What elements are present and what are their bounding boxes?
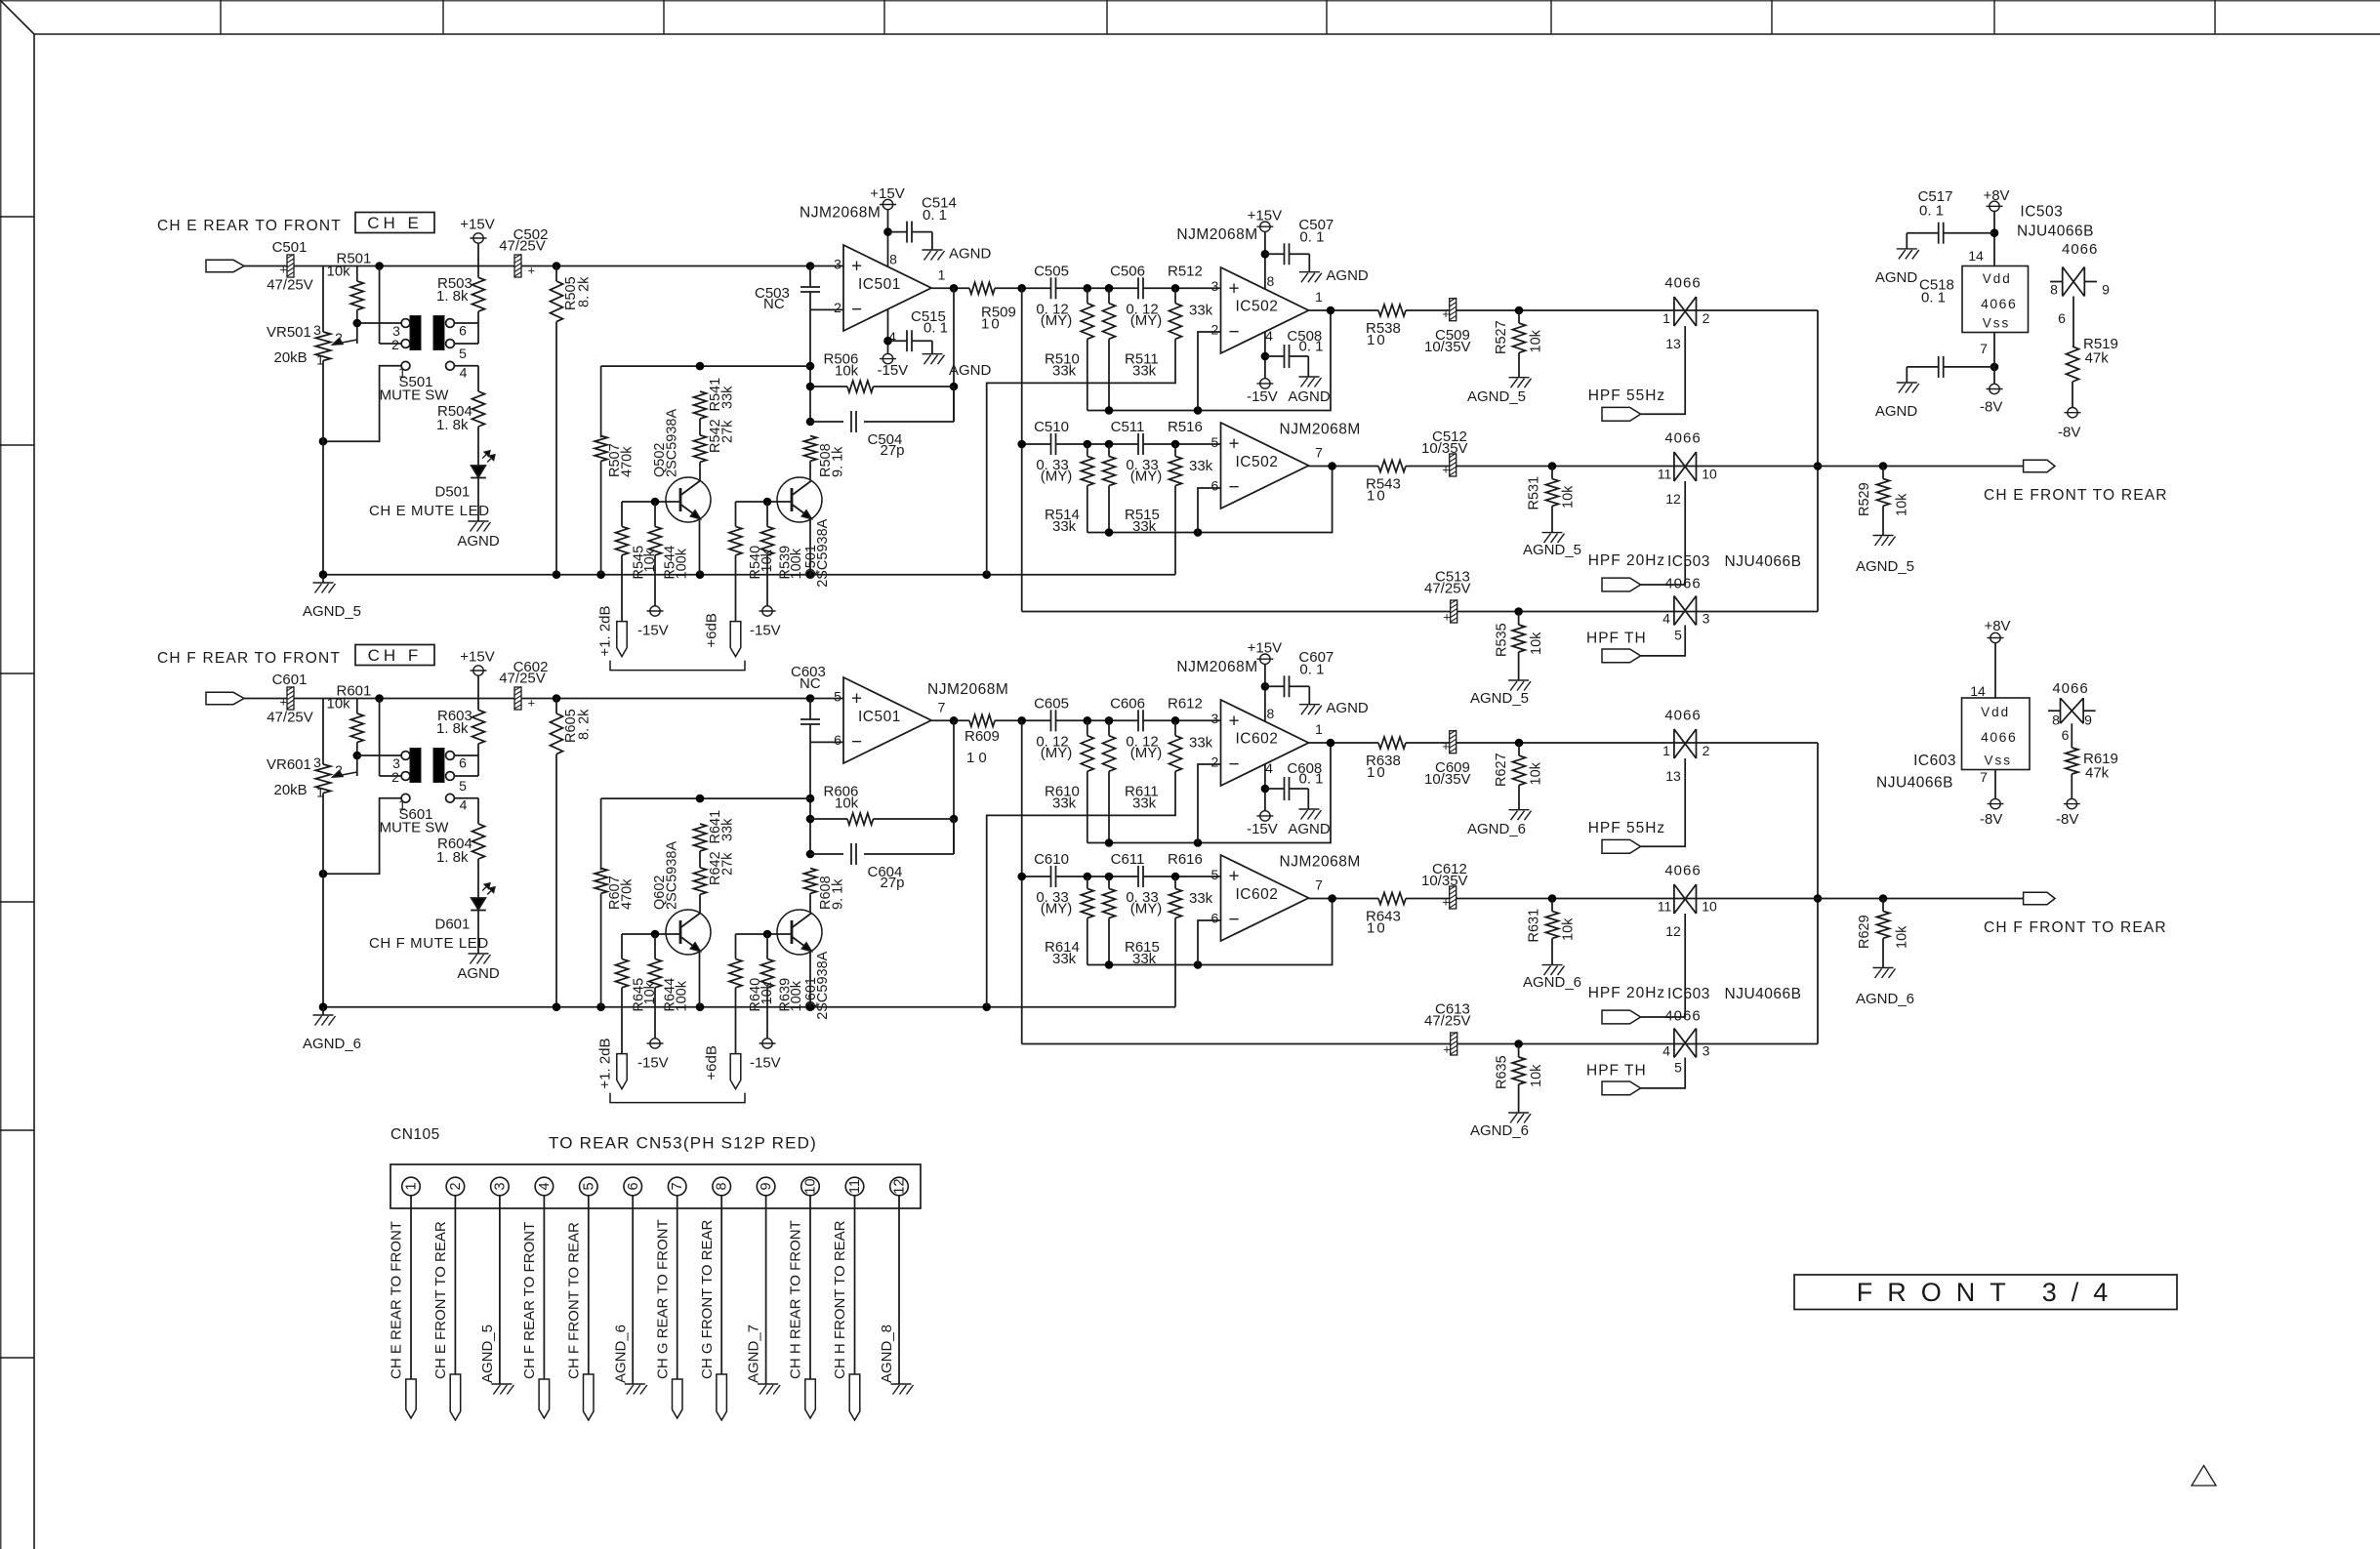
svg-text:+15V: +15V: [1248, 208, 1282, 224]
svg-text:4: 4: [1265, 328, 1273, 344]
border corner diagonal: [0, 0, 34, 34]
node CH F MUTE LED label: [369, 935, 489, 952]
svg-text:NJM2068M: NJM2068M: [1176, 226, 1257, 243]
junction main-pin2 dot: [375, 694, 384, 703]
ground AGND op2 pin8: [1299, 700, 1369, 716]
IC box 4066 Vdd Vss bottom: [1962, 683, 2031, 785]
resistor R505: [551, 262, 593, 575]
svg-text:6: 6: [626, 1182, 641, 1190]
terminal HPF 20Hz: [1588, 552, 1666, 591]
svg-text:10k: 10k: [1529, 632, 1544, 655]
svg-text:D501: D501: [435, 484, 471, 501]
svg-text:14: 14: [1968, 248, 1984, 264]
ground AGND_6 under R635: [1470, 1113, 1531, 1139]
svg-text:+: +: [1442, 895, 1450, 910]
svg-text:NC: NC: [800, 675, 821, 692]
resistor R515: [1103, 444, 1160, 535]
svg-text:5: 5: [581, 1182, 596, 1190]
wire op3 -in: [1198, 920, 1221, 965]
svg-text:FRONT 3/4: FRONT 3/4: [1857, 1278, 2123, 1307]
svg-text:C506: C506: [1110, 264, 1145, 280]
svg-text:CH F MUTE LED: CH F MUTE LED: [369, 935, 489, 952]
resistor R639: [761, 934, 805, 1039]
svg-text:8: 8: [1267, 273, 1275, 289]
svg-text:6: 6: [1211, 478, 1219, 494]
svg-text:AGND: AGND: [457, 533, 500, 550]
svg-text:NJU4066B: NJU4066B: [1725, 986, 1802, 1002]
resistor R540: [729, 502, 775, 622]
svg-text:10: 10: [981, 315, 1002, 332]
svg-text:2: 2: [391, 337, 399, 352]
junction main-pin2 dot: [375, 262, 384, 270]
transistor Q602 2SC5938A: [652, 841, 711, 1007]
svg-text:2: 2: [448, 1182, 464, 1190]
analog switch 4066 sw3: [1662, 576, 1710, 643]
svg-text:TO REAR CN53(PH S12P RED): TO REAR CN53(PH S12P RED): [549, 1134, 817, 1153]
svg-text:2: 2: [391, 769, 399, 785]
svg-text:6: 6: [459, 755, 467, 771]
svg-text:10: 10: [1367, 488, 1387, 505]
node CH F REAR TO FRONT input label: [157, 650, 341, 667]
resistor R543: [1366, 461, 1406, 505]
svg-text:100k: 100k: [675, 980, 690, 1011]
svg-text:HPF 55Hz: HPF 55Hz: [1588, 387, 1666, 404]
svg-text:14: 14: [1970, 683, 1986, 699]
svg-text:HPF TH: HPF TH: [1586, 631, 1647, 647]
resistor R635: [1495, 1039, 1544, 1113]
resistor R514: [1045, 444, 1093, 535]
svg-text:33k: 33k: [1189, 458, 1213, 474]
svg-text:0. 1: 0. 1: [923, 320, 948, 337]
resistor R631: [1527, 894, 1577, 964]
wire bracket under terminals: [610, 661, 745, 671]
svg-text:4066: 4066: [1664, 708, 1701, 724]
wire S pin6: [455, 322, 479, 324]
ground AGND_6 under R627: [1467, 810, 1532, 837]
capacitor C603 NC: [791, 664, 826, 742]
wire wiper arrow: [333, 771, 357, 777]
svg-text:4: 4: [537, 1182, 553, 1190]
capacitor C513 electrolytic: [1424, 569, 1471, 625]
svg-text:-15V: -15V: [637, 623, 669, 639]
capacitor C510: [1034, 419, 1072, 485]
power +15V op2 pin8: [1176, 640, 1282, 722]
power -15V left: [637, 606, 669, 639]
resistor R615: [1103, 876, 1160, 967]
wire sw1 control: [1641, 326, 1686, 414]
svg-text:CH F: CH F: [368, 646, 423, 665]
svg-text:(MY): (MY): [1130, 901, 1163, 917]
wire row C: [1017, 873, 1220, 881]
svg-text:10k: 10k: [327, 696, 351, 713]
capacitor C608: [1265, 760, 1324, 809]
svg-text:10: 10: [966, 750, 991, 766]
wire op1 -in stub: [810, 741, 843, 743]
svg-text:R616: R616: [1168, 851, 1203, 868]
op-amp IC502 B: [1211, 421, 1361, 509]
svg-text:47/25V: 47/25V: [1424, 1013, 1471, 1030]
svg-text:7: 7: [1315, 877, 1323, 893]
wire right bus: [1814, 743, 1823, 1044]
resistor R512: [987, 264, 1213, 575]
resistor R629: [1857, 894, 1910, 967]
svg-text:IC503: IC503: [1667, 553, 1710, 570]
power -8V under R519: [2058, 408, 2081, 441]
svg-text:8. 2k: 8. 2k: [577, 276, 593, 307]
svg-text:4: 4: [1662, 1043, 1670, 1059]
power -15V left: [637, 1039, 669, 1072]
wire wiper arrow: [333, 339, 357, 345]
ground AGND_6 under R629: [1856, 968, 1914, 1008]
wire feedback bus C: [1087, 467, 1333, 537]
svg-text:+: +: [1443, 610, 1451, 625]
svg-text:9. 1k: 9. 1k: [831, 878, 846, 910]
svg-text:R612: R612: [1168, 696, 1203, 713]
resistor R604: [436, 824, 485, 898]
analog switch 4066 sw1: [1662, 275, 1710, 352]
svg-text:MUTE SW: MUTE SW: [380, 387, 450, 404]
svg-text:2SC5938A: 2SC5938A: [815, 518, 831, 587]
svg-text:0. 1: 0. 1: [1299, 771, 1324, 788]
capacitor C514: [888, 195, 957, 251]
wire to S pin3: [357, 754, 401, 756]
resistor R644: [649, 934, 690, 1039]
svg-text:-15V: -15V: [750, 1055, 781, 1072]
resistor R642: [694, 851, 736, 913]
svg-text:+: +: [280, 263, 288, 277]
svg-text:IC501: IC501: [858, 276, 901, 293]
svg-text:8: 8: [1267, 706, 1275, 721]
capacitor C602 electrolytic: [499, 659, 548, 711]
ground AGND_6 under R631: [1523, 965, 1581, 991]
svg-text:R531: R531: [1527, 476, 1542, 510]
wire row B: [1309, 739, 1819, 748]
capacitor C613 electrolytic: [1424, 1001, 1471, 1057]
terminal +1.2dB: [596, 1038, 627, 1088]
node CH E REAR TO FRONT input label: [157, 218, 342, 234]
op-amp IC501 A: [800, 205, 946, 346]
svg-text:4066: 4066: [1664, 863, 1701, 879]
svg-text:47/25V: 47/25V: [1424, 581, 1471, 597]
capacitor C610: [1034, 851, 1072, 917]
svg-text:33k: 33k: [720, 386, 736, 409]
ground AGND under LED: [457, 521, 500, 550]
svg-text:AGND_7: AGND_7: [746, 1325, 762, 1383]
resistor R509: [969, 282, 1022, 332]
svg-text:9. 1k: 9. 1k: [831, 446, 846, 477]
svg-text:11: 11: [847, 1179, 863, 1194]
resistor R616: [1168, 851, 1213, 1007]
svg-text:2SC5938A: 2SC5938A: [665, 409, 680, 477]
junction pin3 node dot: [806, 262, 815, 270]
resistor R508: [804, 436, 846, 478]
svg-text:33k: 33k: [1052, 363, 1077, 380]
svg-text:10k: 10k: [1529, 1064, 1544, 1087]
power -15V right: [750, 1039, 781, 1072]
resistor R601: [327, 683, 372, 777]
capacitor C508: [1265, 328, 1324, 377]
svg-text:-15V: -15V: [878, 362, 909, 379]
power -15V op1 pin4: [878, 309, 909, 379]
svg-text:CH H REAR TO FRONT: CH H REAR TO FRONT: [788, 1220, 804, 1379]
connector pin 11 CH H FRONT TO REAR: [832, 1177, 864, 1420]
svg-text:0. 1: 0. 1: [1919, 203, 1944, 220]
svg-text:AGND: AGND: [1326, 700, 1369, 716]
svg-text:4066: 4066: [1981, 296, 2017, 311]
svg-text:10/35V: 10/35V: [1424, 771, 1471, 788]
svg-text:2: 2: [335, 762, 343, 778]
svg-text:10k: 10k: [1895, 493, 1910, 516]
svg-text:AGND_5: AGND_5: [479, 1325, 496, 1383]
transistor Q501 2SC5938A: [777, 461, 831, 587]
svg-text:−: −: [1229, 754, 1240, 775]
resistor R504: [436, 391, 485, 466]
svg-text:C605: C605: [1034, 696, 1069, 713]
svg-text:4066: 4066: [1981, 729, 2017, 745]
svg-text:+: +: [280, 695, 288, 710]
svg-text:4066: 4066: [1664, 430, 1701, 447]
capacitor C505: [1034, 264, 1072, 330]
svg-text:9: 9: [759, 1182, 774, 1190]
svg-text:AGND_6: AGND_6: [1856, 991, 1914, 1007]
svg-text:+6dB: +6dB: [704, 1045, 720, 1080]
svg-text:AGND_6: AGND_6: [612, 1325, 629, 1383]
svg-text:CH E REAR TO FRONT: CH E REAR TO FRONT: [389, 1221, 405, 1379]
svg-text:5: 5: [459, 346, 467, 361]
op-amp IC602 B: [1211, 853, 1361, 941]
wire S pin4: [455, 798, 479, 824]
svg-text:33k: 33k: [1189, 303, 1213, 319]
svg-text:10/35V: 10/35V: [1421, 440, 1468, 457]
svg-text:−: −: [851, 732, 862, 753]
svg-text:33k: 33k: [1189, 735, 1213, 752]
border top edge: [0, 0, 2380, 2]
capacitor C518: [1907, 277, 1998, 385]
resistor R507: [595, 366, 636, 575]
analog switch 4066 spare bottom: [2048, 680, 2096, 743]
svg-text:10: 10: [1367, 764, 1387, 781]
svg-text:3: 3: [492, 1182, 508, 1190]
node CH E box: [355, 213, 434, 233]
capacitor C507: [1265, 217, 1334, 272]
svg-text:2: 2: [1703, 743, 1710, 758]
power +8V IC503: [1983, 187, 2009, 266]
junction pot-bottom dot: [319, 870, 328, 878]
svg-text:-8V: -8V: [2058, 425, 2080, 441]
svg-text:0. 1: 0. 1: [1299, 662, 1324, 678]
svg-text:47k: 47k: [2085, 350, 2110, 367]
ground AGND under C518: [1875, 383, 1919, 420]
resistor R640: [729, 934, 775, 1054]
ground AGND_5 under R531: [1523, 533, 1581, 558]
svg-text:10: 10: [803, 1178, 819, 1194]
svg-text:−: −: [851, 300, 862, 320]
connector pin 9 AGND_7: [746, 1177, 780, 1394]
wire row D: [1309, 462, 2024, 470]
connector title TO REAR CN53: [549, 1134, 817, 1153]
border left edge: [0, 0, 2, 1549]
svg-text:+: +: [1442, 306, 1450, 321]
svg-text:7: 7: [1980, 341, 1988, 356]
svg-text:33k: 33k: [1132, 363, 1157, 380]
svg-text:2: 2: [1211, 322, 1219, 338]
svg-text:10k: 10k: [1560, 485, 1576, 509]
svg-text:AGND: AGND: [1288, 388, 1331, 405]
connector pin 6 AGND_6: [612, 1177, 646, 1394]
resistor R614: [1045, 876, 1093, 967]
svg-text:NJM2068M: NJM2068M: [1280, 421, 1361, 437]
svg-text:1: 1: [1315, 289, 1323, 305]
svg-text:-15V: -15V: [750, 623, 781, 639]
svg-text:1: 1: [1662, 310, 1670, 326]
svg-text:3: 3: [1703, 1043, 1710, 1059]
svg-text:10: 10: [1367, 332, 1387, 348]
terminal +6dB: [704, 613, 741, 656]
svg-text:(MY): (MY): [1041, 901, 1073, 917]
svg-text:10/35V: 10/35V: [1421, 873, 1468, 889]
svg-text:C601: C601: [272, 672, 308, 688]
resistor R506 feedback: [806, 309, 959, 426]
capacitor C515: [888, 308, 949, 354]
wire op1 +in stub: [810, 698, 843, 700]
svg-text:5: 5: [1211, 434, 1219, 450]
svg-text:+: +: [1229, 712, 1240, 732]
capacitor C609 electrolytic: [1424, 730, 1471, 788]
svg-text:IC603: IC603: [1667, 986, 1710, 1002]
wire op1 out node: [931, 284, 969, 422]
ground AGND under C517: [1875, 249, 1919, 286]
IC box 4066 Vdd Vss: [1962, 248, 2029, 356]
svg-text:3: 3: [313, 754, 321, 770]
svg-text:33k: 33k: [720, 818, 736, 841]
resistor R535: [1495, 607, 1544, 680]
svg-text:+1. 2dB: +1. 2dB: [596, 605, 613, 656]
LED D501 mute led: [435, 451, 495, 521]
svg-text:13: 13: [1665, 336, 1681, 351]
border top rule: [34, 33, 2380, 35]
svg-text:33k: 33k: [1189, 890, 1213, 907]
wire bias top: [601, 795, 810, 803]
svg-text:+: +: [851, 257, 862, 277]
resistor R542: [694, 419, 736, 480]
capacitor C506: [1110, 264, 1162, 330]
svg-text:AGND_5: AGND_5: [1523, 542, 1581, 558]
revision triangle: [2192, 1466, 2216, 1487]
wire op3 -in: [1198, 488, 1221, 533]
svg-text:10k: 10k: [327, 264, 351, 280]
svg-text:NJU4066B: NJU4066B: [2017, 224, 2094, 240]
svg-text:+: +: [528, 696, 536, 711]
svg-text:-15V: -15V: [1247, 821, 1278, 837]
svg-text:VR501: VR501: [267, 324, 311, 341]
svg-text:C610: C610: [1034, 851, 1069, 868]
wire S pin5: [455, 775, 479, 777]
svg-text:4: 4: [1265, 760, 1273, 776]
power +15V op1 pin8: [870, 185, 904, 266]
connector pin 8 CH G FRONT TO REAR: [699, 1177, 731, 1420]
power +15V op2 pin8: [1176, 208, 1282, 290]
svg-text:AGND_6: AGND_6: [1470, 1122, 1529, 1139]
connector pin 2 CH E FRONT TO REAR: [432, 1177, 465, 1420]
wire row C feed: [1021, 288, 1023, 611]
svg-text:0. 1: 0. 1: [1921, 290, 1946, 306]
resistor R503: [436, 275, 485, 344]
wire Q2 base: [622, 498, 680, 507]
svg-text:27k: 27k: [720, 420, 736, 443]
resistor R643: [1366, 893, 1406, 937]
connector pin 4 CH F REAR TO FRONT: [521, 1177, 554, 1418]
svg-text:+15V: +15V: [1248, 640, 1282, 657]
resistor R527: [1494, 306, 1543, 378]
connector pin 10 CH H REAR TO FRONT: [788, 1177, 820, 1418]
svg-text:CH F FRONT TO REAR: CH F FRONT TO REAR: [565, 1222, 582, 1379]
svg-text:33k: 33k: [1052, 951, 1077, 967]
connector pin 5 CH F FRONT TO REAR: [565, 1177, 597, 1420]
svg-text:CH H FRONT TO REAR: CH H FRONT TO REAR: [832, 1220, 848, 1379]
terminal HPF 55Hz: [1588, 820, 1666, 853]
svg-text:-8V: -8V: [1980, 811, 2002, 828]
wire op1 -in stub: [810, 308, 843, 310]
wire feedback bus A: [1087, 310, 1331, 415]
svg-text:6: 6: [1211, 911, 1219, 926]
svg-text:+: +: [1442, 463, 1450, 477]
wire sw2 control: [1641, 914, 1686, 1017]
svg-text:R535: R535: [1495, 623, 1510, 657]
svg-text:3: 3: [1211, 278, 1219, 294]
svg-text:C501: C501: [272, 239, 308, 256]
svg-text:4: 4: [1662, 611, 1670, 627]
power -15V right: [750, 606, 781, 639]
resistor R544: [649, 502, 690, 606]
svg-text:4: 4: [460, 365, 468, 381]
svg-text:6: 6: [834, 732, 841, 748]
svg-text:47/25V: 47/25V: [267, 710, 313, 726]
svg-text:33k: 33k: [1052, 518, 1077, 535]
wire feedback bus C: [1087, 899, 1333, 969]
svg-text:IC501: IC501: [858, 709, 901, 725]
junction rail dots: [319, 570, 991, 579]
IC603 labels: [1876, 753, 1956, 792]
svg-text:0. 1: 0. 1: [1299, 339, 1324, 355]
svg-text:6: 6: [2062, 727, 2070, 743]
svg-text:NC: NC: [763, 296, 785, 312]
svg-text:5: 5: [1674, 1060, 1682, 1076]
wire right bus: [1814, 310, 1823, 612]
wire S pin5: [455, 343, 479, 345]
svg-text:20kB: 20kB: [274, 782, 308, 798]
wire sw3 control: [1641, 626, 1686, 656]
svg-text:AGND_8: AGND_8: [879, 1325, 895, 1383]
svg-text:AGND_6: AGND_6: [1467, 821, 1526, 837]
svg-text:47/25V: 47/25V: [499, 238, 546, 255]
svg-text:CH E FRONT TO REAR: CH E FRONT TO REAR: [1984, 487, 2168, 504]
svg-text:1. 8k: 1. 8k: [436, 849, 469, 866]
ground AGND op2 pin8: [1299, 267, 1369, 284]
svg-text:NJM2068M: NJM2068M: [800, 205, 881, 222]
svg-text:Vss: Vss: [1983, 316, 2011, 331]
svg-text:CH G REAR TO FRONT: CH G REAR TO FRONT: [654, 1219, 671, 1379]
svg-text:0. 1: 0. 1: [1299, 229, 1324, 246]
svg-text:3: 3: [1703, 611, 1710, 627]
svg-text:CN105: CN105: [390, 1126, 440, 1143]
svg-text:IC502: IC502: [1236, 299, 1279, 315]
svg-text:AGND_5: AGND_5: [1470, 690, 1529, 707]
svg-text:8. 2k: 8. 2k: [577, 709, 593, 740]
connector pin 12 AGND_8: [879, 1177, 913, 1394]
svg-text:4066: 4066: [2062, 241, 2098, 258]
svg-text:1. 8k: 1. 8k: [436, 417, 469, 433]
svg-text:NJM2068M: NJM2068M: [927, 681, 1008, 698]
